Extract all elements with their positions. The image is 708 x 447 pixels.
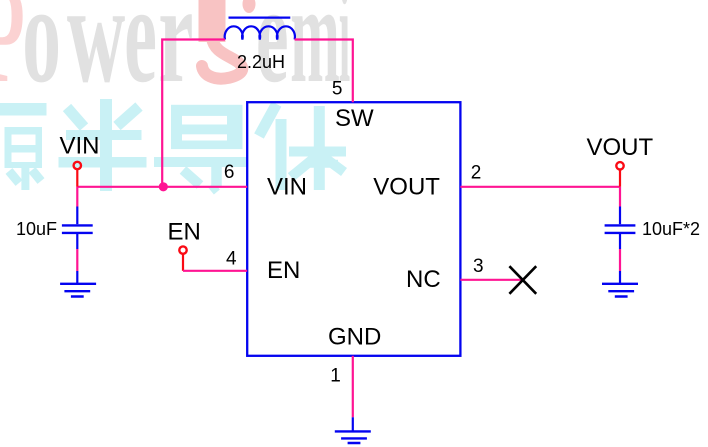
- svg-text:1: 1: [330, 366, 341, 387]
- svg-text:10uF: 10uF: [16, 219, 57, 239]
- wire VOUT down to capacitor C2: [619, 187, 621, 207]
- watermark chinese char 原 (cut at left): [0, 103, 47, 190]
- terminal VIN circle: [74, 162, 81, 169]
- svg-text:VIN: VIN: [267, 173, 307, 200]
- watermark chinese char 半: [59, 99, 147, 191]
- svg-text:6: 6: [224, 162, 235, 183]
- svg-text:2.2uH: 2.2uH: [237, 52, 285, 72]
- svg-text:VOUT: VOUT: [373, 173, 440, 200]
- ground G2 stub: [619, 271, 621, 284]
- watermark chinese char 导: [154, 105, 248, 191]
- svg-text:VIN: VIN: [60, 133, 100, 160]
- ground G3 bars: [335, 431, 371, 443]
- watermark PowerSemi: [0, 0, 350, 113]
- inductor L1 bar: [229, 17, 291, 19]
- svg-text:w: w: [67, 0, 125, 112]
- wire pin 1 GND: [352, 356, 354, 418]
- wire C2 to ground: [619, 249, 621, 271]
- capacitor C1 plates: [62, 225, 93, 233]
- svg-text:2: 2: [471, 163, 482, 184]
- junction dot: [159, 182, 168, 191]
- wire pin 3 to no-connect: [460, 279, 523, 281]
- terminal VIN stub: [76, 170, 78, 187]
- no-connect X on NC: [509, 266, 536, 294]
- svg-text:EN: EN: [168, 218, 201, 245]
- ground G2 bars: [602, 284, 638, 297]
- inductor L1 coils: [225, 26, 295, 39]
- svg-text:3: 3: [473, 256, 484, 277]
- capacitor C2 plates: [605, 225, 636, 233]
- svg-text:o: o: [22, 0, 61, 112]
- terminal VOUT stub: [619, 170, 621, 187]
- svg-text:EN: EN: [267, 257, 300, 284]
- terminal EN stub: [182, 254, 184, 271]
- svg-text:GND: GND: [328, 323, 381, 350]
- watermark chinese char 体: [259, 104, 346, 190]
- svg-text:e: e: [124, 0, 157, 112]
- capacitor C1 top lead: [76, 207, 78, 225]
- wire VIN down to capacitor C1: [76, 187, 78, 207]
- svg-text:VOUT: VOUT: [587, 134, 654, 161]
- svg-text:4: 4: [226, 249, 237, 270]
- ground G1 stub: [76, 271, 78, 284]
- capacitor C1 bottom lead: [76, 234, 78, 249]
- svg-text:P: P: [0, 0, 25, 113]
- terminal VOUT circle: [616, 162, 623, 169]
- terminal EN circle: [179, 246, 186, 253]
- wire VIN horizontal to pin 6: [77, 186, 247, 188]
- wire EN to pin 4: [183, 270, 247, 272]
- IC U1 body: [247, 102, 460, 356]
- svg-text:10uF*2: 10uF*2: [642, 219, 700, 239]
- capacitor C2 bottom lead: [619, 234, 621, 249]
- wire C1 to ground: [76, 249, 78, 271]
- ground G3 stub: [352, 417, 354, 431]
- wire pin 2 to VOUT: [460, 186, 620, 188]
- wire from inductor left down to junction: [162, 40, 225, 187]
- ground G1 bars: [60, 284, 96, 297]
- svg-text:NC: NC: [406, 266, 441, 293]
- capacitor C2 top lead: [619, 207, 621, 225]
- svg-text:5: 5: [332, 78, 343, 99]
- wire from inductor right to SW pin 5: [295, 40, 353, 103]
- svg-text:r: r: [158, 0, 193, 112]
- svg-text:SW: SW: [335, 105, 374, 132]
